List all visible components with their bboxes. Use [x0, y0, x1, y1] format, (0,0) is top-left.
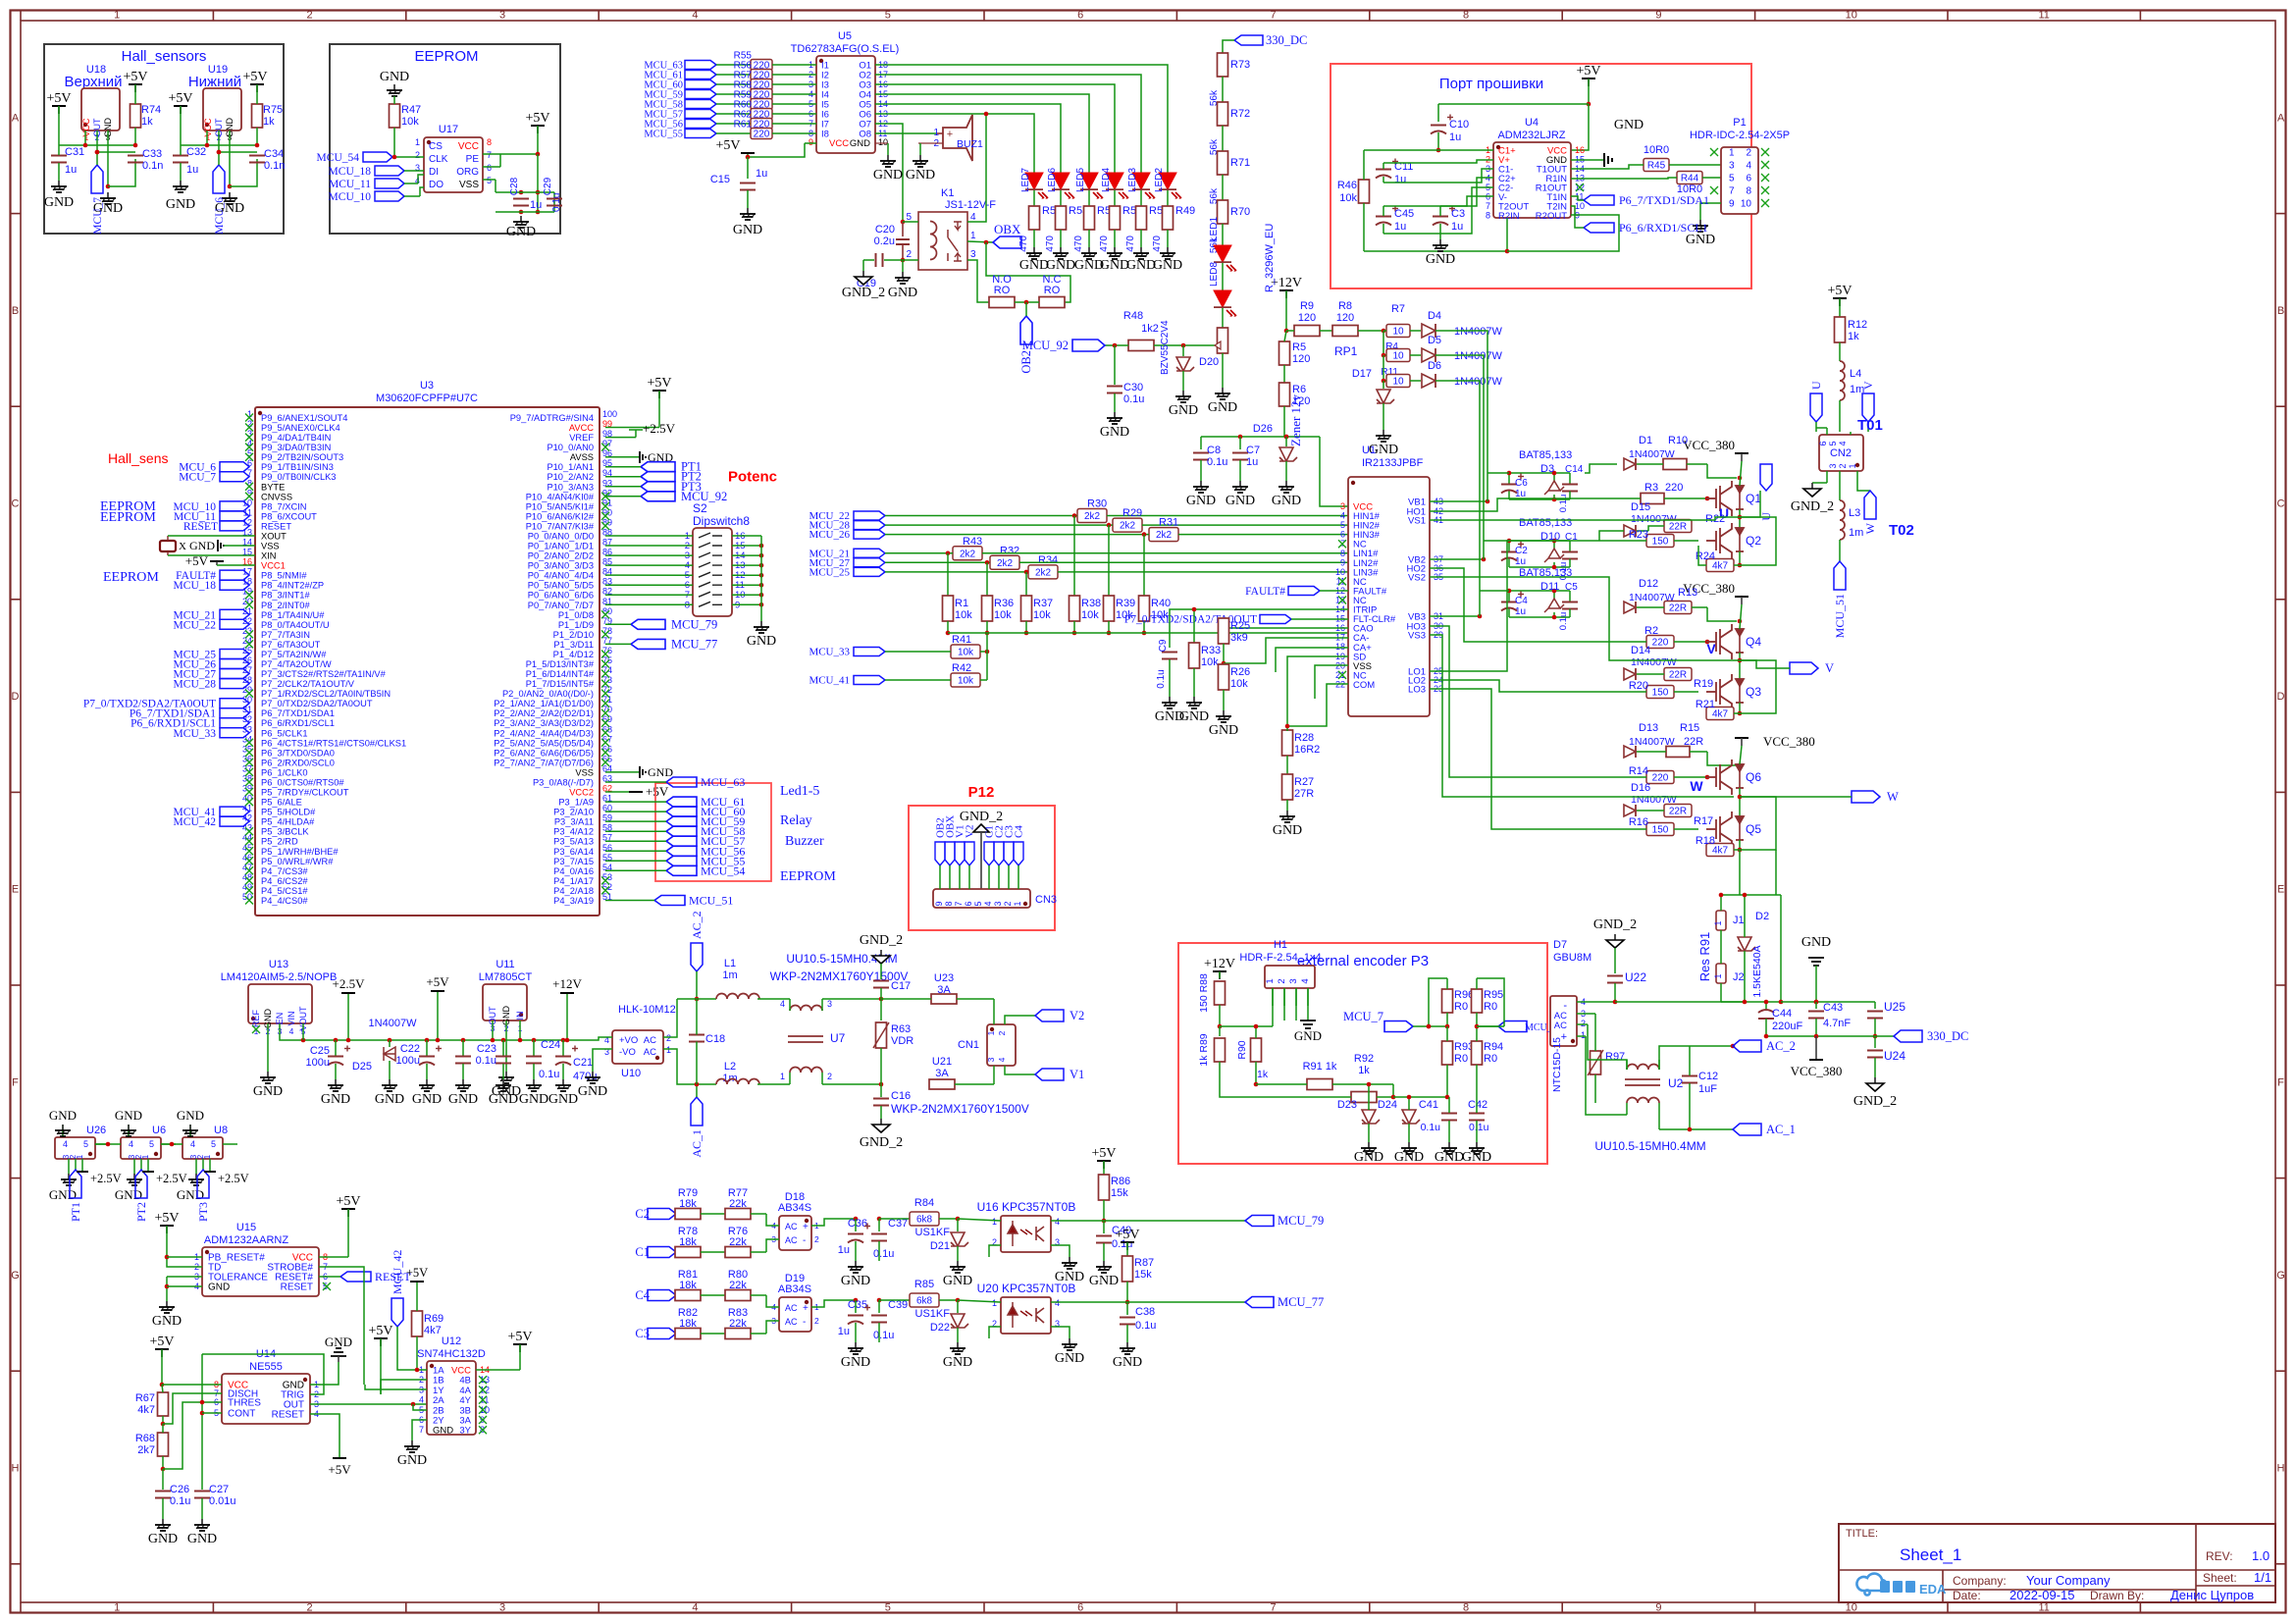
wire TVS top — [1720, 895, 1722, 911]
power +2.5V — [147, 1159, 149, 1172]
svg-text:1N4007W: 1N4007W — [1631, 656, 1677, 668]
resistor R37 10k — [1024, 570, 1029, 575]
svg-text:JS1-12V-F: JS1-12V-F — [945, 199, 996, 211]
wire C1- row — [1383, 177, 1384, 183]
svg-text:34: 34 — [242, 734, 252, 744]
ground — [335, 1079, 337, 1085]
svg-text:1: 1 — [114, 1602, 120, 1614]
svg-text:3: 3 — [827, 999, 832, 1009]
svg-text:9: 9 — [1655, 1602, 1661, 1614]
resistor R90 1k — [1251, 1038, 1262, 1062]
ground above U8 — [189, 1125, 191, 1137]
svg-text:5: 5 — [211, 1139, 216, 1149]
svg-text:P2_2/AN2_2/A2(/D2/D1): P2_2/AN2_2/A2(/D2/D1) — [494, 708, 594, 718]
net flag 330_DC top — [1234, 35, 1263, 45]
svg-text:GND: GND — [906, 168, 935, 183]
svg-text:AC: AC — [785, 1235, 798, 1245]
net flag PT2 — [641, 472, 675, 482]
svg-text:AC_1: AC_1 — [690, 1129, 704, 1158]
svg-text:1k R89: 1k R89 — [1198, 1033, 1210, 1066]
svg-text:VS3: VS3 — [1408, 631, 1426, 642]
resistor R96 R0 — [1442, 989, 1453, 1013]
svg-text:1.0: 1.0 — [2252, 1548, 2270, 1563]
svg-text:10: 10 — [878, 137, 888, 147]
ground — [267, 1072, 269, 1077]
svg-text:GND_2: GND_2 — [860, 1135, 903, 1150]
ground — [1033, 247, 1035, 253]
svg-text:D11: D11 — [1540, 581, 1559, 593]
svg-text:0.1u: 0.1u — [1469, 1122, 1489, 1133]
svg-text:P7_6/TA3OUT: P7_6/TA3OUT — [261, 640, 321, 650]
wire ITRIP — [1170, 609, 1348, 648]
net flag MCU_61 — [666, 797, 697, 807]
svg-text:AC_2: AC_2 — [1766, 1039, 1796, 1053]
svg-text:C35: C35 — [848, 1299, 867, 1311]
svg-text:10: 10 — [1741, 199, 1752, 210]
svg-text:6k8: 6k8 — [916, 1296, 933, 1307]
svg-text:Q4: Q4 — [1746, 635, 1761, 649]
svg-text:P1_1/D9: P1_1/D9 — [558, 620, 594, 630]
wire buzzer pin2 to ground — [918, 142, 943, 144]
svg-text:J1: J1 — [1733, 915, 1745, 926]
svg-text:GND: GND — [177, 1108, 204, 1123]
net flag P7_0/TXD2/SDA2/TA0OUT — [220, 699, 249, 708]
svg-text:BZV55C2V4: BZV55C2V4 — [1160, 320, 1171, 375]
net flag MCU_26 — [220, 659, 249, 669]
net flag MCU_25 — [854, 567, 885, 576]
wire bootstrap D6 to cluster3 — [1450, 381, 1480, 616]
svg-text:GND_2: GND_2 — [842, 286, 885, 300]
wire AC bottom — [663, 1049, 716, 1084]
output wires O1..O8 — [885, 65, 1168, 167]
wire C1+ row — [1363, 150, 1365, 180]
resistor R17 22R — [1664, 805, 1692, 817]
svg-text:R20: R20 — [1629, 680, 1648, 692]
svg-text:220: 220 — [1652, 638, 1669, 649]
svg-text:EEPROM: EEPROM — [100, 510, 156, 525]
svg-text:CLK: CLK — [429, 154, 448, 165]
svg-text:PT2: PT2 — [134, 1202, 148, 1222]
svg-text:C9: C9 — [1158, 639, 1169, 652]
svg-text:GND: GND — [321, 1092, 350, 1107]
net flag MCU_79 — [1245, 1216, 1274, 1227]
svg-text:220: 220 — [1652, 773, 1669, 784]
ground — [855, 1261, 857, 1267]
svg-text:75: 75 — [602, 655, 612, 665]
svg-text:3: 3 — [986, 1057, 996, 1062]
svg-text:7: 7 — [954, 901, 964, 906]
svg-text:C28: C28 — [509, 177, 520, 195]
diode D25 1N4007W — [388, 1038, 392, 1043]
svg-text:4: 4 — [129, 1139, 133, 1149]
svg-text:U12: U12 — [442, 1335, 461, 1347]
svg-text:MCU_63: MCU_63 — [701, 775, 745, 789]
svg-text:D13: D13 — [1639, 722, 1658, 734]
net flag MCU_25 — [220, 650, 249, 659]
svg-text:RESET: RESET — [183, 521, 218, 533]
svg-text:P3_1/A9: P3_1/A9 — [558, 798, 594, 808]
capacitor C11 1u — [1376, 169, 1391, 171]
svg-text:GND: GND — [648, 765, 673, 779]
power +5V — [1588, 79, 1590, 86]
ground — [1285, 481, 1287, 487]
power +5V — [747, 152, 749, 154]
svg-text:220uF: 220uF — [1772, 1021, 1802, 1032]
svg-text:GND_2: GND_2 — [1593, 917, 1637, 932]
wire V node — [1739, 653, 1741, 679]
svg-text:67: 67 — [602, 734, 612, 744]
capacitor C18 — [689, 1034, 704, 1036]
svg-text:P5_6/ALE: P5_6/ALE — [261, 798, 302, 808]
svg-text:0.1u: 0.1u — [1558, 612, 1569, 631]
svg-text:2k2: 2k2 — [1035, 568, 1052, 579]
net flag MCU_6 — [1498, 1021, 1527, 1032]
svg-text:C1: C1 — [635, 1245, 650, 1259]
net flag C4 — [648, 1290, 676, 1301]
svg-text:D2: D2 — [1755, 911, 1769, 922]
resistor R46 10k — [1359, 180, 1370, 203]
power +5V — [134, 84, 136, 92]
svg-text:PT1: PT1 — [69, 1202, 82, 1222]
svg-text:U13: U13 — [269, 959, 288, 970]
LED LED6 — [1060, 167, 1062, 175]
net flag FAULT# — [220, 570, 249, 580]
net flag OB2 vertical — [1020, 316, 1032, 344]
svg-text:D1: D1 — [1639, 435, 1652, 446]
wire bridge out+ — [811, 1300, 856, 1307]
wire R95 top loop — [1477, 978, 1504, 1026]
net flag MCU_63 — [666, 777, 697, 787]
svg-text:U25: U25 — [1884, 1000, 1905, 1014]
svg-text:R48: R48 — [1123, 310, 1143, 322]
svg-text:1u: 1u — [1515, 606, 1526, 617]
svg-text:R3: R3 — [1644, 482, 1658, 494]
NC crosses right — [479, 1376, 487, 1384]
resistor R56 220 — [716, 74, 752, 76]
svg-text:1m: 1m — [722, 1073, 737, 1084]
svg-text:2: 2 — [906, 249, 912, 260]
svg-text:Q6: Q6 — [1746, 770, 1761, 784]
svg-text:150: 150 — [1652, 688, 1669, 699]
net flag 330_DC right — [1894, 1030, 1922, 1042]
ground — [957, 1342, 959, 1348]
svg-text:P3_5/A13: P3_5/A13 — [553, 837, 594, 847]
svg-text:D20: D20 — [1199, 356, 1219, 368]
wire cluster bottom bus — [1508, 492, 1510, 500]
svg-text:P7_7/TA3IN: P7_7/TA3IN — [261, 630, 310, 640]
svg-text:MCU_33: MCU_33 — [174, 728, 217, 740]
svg-text:68: 68 — [602, 724, 612, 734]
wire +5V to VCC — [1587, 102, 1592, 107]
wires below — [133, 1159, 135, 1174]
svg-text:9: 9 — [809, 137, 813, 147]
svg-text:Sheet:: Sheet: — [2203, 1571, 2237, 1585]
svg-text:U5: U5 — [838, 30, 852, 42]
svg-text:2: 2 — [814, 1234, 819, 1244]
svg-text:0.01u: 0.01u — [209, 1495, 236, 1507]
svg-text:F: F — [2277, 1076, 2284, 1088]
power +5V — [437, 991, 439, 1040]
ground — [1448, 1142, 1450, 1148]
svg-text:49: 49 — [242, 882, 252, 892]
ground — [1193, 697, 1195, 703]
net flag C4 vertical — [1014, 842, 1023, 865]
svg-text:+5V: +5V — [328, 1462, 351, 1477]
svg-text:C3: C3 — [1451, 208, 1465, 220]
svg-text:GND: GND — [1169, 403, 1198, 418]
net flag MCU_7 — [91, 165, 103, 193]
svg-text:P9_0/TB0IN/CLK3: P9_0/TB0IN/CLK3 — [261, 472, 336, 482]
net flag MCU_77 — [631, 639, 665, 649]
svg-text:-: - — [803, 1317, 806, 1328]
svg-text:PT3: PT3 — [196, 1202, 210, 1222]
svg-text:D: D — [2277, 691, 2285, 703]
svg-text:4: 4 — [190, 1139, 195, 1149]
ground — [533, 1079, 535, 1085]
svg-text:6k8: 6k8 — [916, 1215, 933, 1226]
resistor R13 22R — [1664, 602, 1692, 614]
svg-text:1uF: 1uF — [1698, 1083, 1717, 1095]
net flag C2 vertical — [994, 842, 1004, 865]
ground — [1103, 1261, 1105, 1267]
svg-text:P9_2/TB2IN/SOUT3: P9_2/TB2IN/SOUT3 — [261, 452, 343, 462]
resistor R69 4k7 — [412, 1311, 423, 1336]
svg-text:27: 27 — [242, 665, 252, 675]
svg-text:A: A — [12, 112, 20, 124]
net flag MCU_10 — [220, 501, 249, 511]
svg-text:48: 48 — [242, 872, 252, 882]
net flag MCU_10 — [375, 191, 404, 201]
svg-text:BAT85,133: BAT85,133 — [1519, 517, 1572, 529]
svg-text:CS: CS — [429, 141, 443, 152]
svg-text:2: 2 — [307, 1602, 313, 1614]
power +5V mid — [380, 1338, 382, 1346]
capacitor C8 0.1u — [1200, 437, 1202, 449]
svg-text:B: B — [12, 305, 19, 317]
svg-text:5: 5 — [1340, 520, 1345, 530]
LED LED2 — [1167, 167, 1169, 175]
wire cluster top bus — [1509, 590, 1570, 592]
svg-text:66: 66 — [602, 744, 612, 754]
svg-text:MCU_79: MCU_79 — [1278, 1214, 1324, 1228]
svg-text:RO: RO — [1044, 285, 1061, 296]
wire CONT/THRES vertical — [201, 1354, 203, 1490]
svg-text:P6_6/RXD1/SCL1: P6_6/RXD1/SCL1 — [1619, 221, 1708, 235]
svg-text:3: 3 — [970, 249, 976, 260]
svg-text:P0_3/AN0_3/D3: P0_3/AN0_3/D3 — [528, 561, 594, 571]
net flag MCU_18 — [375, 166, 404, 176]
net flag PT1 — [641, 462, 675, 472]
wire opto pin3 gnd — [1051, 1327, 1070, 1338]
wire dipswitch row 1 — [605, 535, 693, 537]
svg-text:P4_6/CS2#: P4_6/CS2# — [261, 876, 308, 886]
svg-text:47: 47 — [242, 863, 252, 872]
net flag MCU_54 — [666, 865, 697, 875]
svg-text:+5V: +5V — [336, 1194, 360, 1209]
svg-text:1/1: 1/1 — [2254, 1570, 2271, 1585]
wire VS2 to V node — [1430, 577, 1742, 660]
svg-text:MCU_77: MCU_77 — [1278, 1295, 1324, 1309]
wire U2 right side — [1658, 1060, 1660, 1070]
svg-text:VCC_380: VCC_380 — [1683, 438, 1735, 452]
svg-text:32: 32 — [242, 714, 252, 724]
ground — [1114, 412, 1116, 418]
wire MCU_42/R69 to 1A — [397, 1365, 427, 1370]
capacitor C1 0.1u — [1562, 551, 1578, 553]
svg-text:97: 97 — [602, 439, 612, 448]
svg-text:P6_6/RXD1/SCL1: P6_6/RXD1/SCL1 — [261, 718, 335, 728]
svg-text:AC: AC — [644, 1047, 656, 1058]
crystal X1 — [160, 541, 176, 551]
wire cluster top to D1 — [1585, 464, 1617, 473]
svg-text:6: 6 — [1077, 10, 1083, 22]
wire — [392, 156, 424, 158]
power +2.5V — [81, 1159, 83, 1172]
wire +5V to pins 1,2 — [167, 1226, 202, 1267]
svg-text:0.1u: 0.1u — [539, 1069, 559, 1080]
inductor L4 1m — [1840, 361, 1845, 400]
svg-text:R67: R67 — [135, 1392, 155, 1404]
svg-text:P6_3/TXD0/SDA0: P6_3/TXD0/SDA0 — [261, 748, 335, 758]
svg-text:7: 7 — [419, 1425, 424, 1435]
svg-text:1u: 1u — [65, 164, 77, 176]
net flag MCU_11 — [220, 511, 249, 521]
svg-text:D16: D16 — [1631, 782, 1650, 794]
svg-text:C29: C29 — [543, 177, 553, 195]
svg-text:P10_7/AN7/KI3#: P10_7/AN7/KI3# — [526, 521, 595, 531]
svg-text:5: 5 — [885, 10, 891, 22]
svg-text:C8: C8 — [1207, 445, 1221, 456]
ground above U6 — [128, 1125, 130, 1137]
svg-text:U2: U2 — [1668, 1076, 1684, 1090]
svg-text:330_DC: 330_DC — [1927, 1029, 1968, 1043]
net flag AC_2 vertical — [691, 943, 703, 971]
svg-text:R69: R69 — [424, 1313, 444, 1325]
svg-text:MCU_79: MCU_79 — [671, 617, 717, 631]
svg-text:2: 2 — [827, 1072, 832, 1081]
ground — [1167, 247, 1169, 253]
svg-text:GND: GND — [1019, 258, 1049, 273]
wire RESET to +5V — [310, 1414, 339, 1458]
resistor R36 10k — [985, 560, 990, 565]
resistor R26 10k — [1219, 664, 1229, 690]
svg-text:GND: GND — [115, 1108, 142, 1123]
wire 10k common bus — [948, 632, 1348, 634]
capacitor C45 1u — [1376, 216, 1391, 218]
svg-text:C17: C17 — [891, 980, 911, 992]
svg-text:GND: GND — [1089, 1274, 1119, 1288]
external encoder P3 group box — [1178, 943, 1547, 1164]
svg-text:U: U — [1719, 505, 1729, 521]
svg-text:U15: U15 — [236, 1222, 256, 1233]
svg-text:10: 10 — [1575, 201, 1585, 211]
resistor R50 470 — [1140, 190, 1142, 206]
LED LED7 — [1033, 167, 1035, 175]
svg-text:P7_3/CTS2#/RTS2#/TA1IN/V#: P7_3/CTS2#/RTS2#/TA1IN/V# — [261, 669, 387, 679]
net flag C3 vertical — [1004, 842, 1014, 865]
resistor R89 1k — [1219, 1026, 1221, 1036]
svg-text:GND: GND — [1394, 1150, 1424, 1165]
svg-text:GND: GND — [1186, 494, 1216, 508]
capacitor C2 1u — [1501, 551, 1517, 553]
svg-text:+2.5V: +2.5V — [333, 976, 366, 991]
wire 12v bus — [1284, 435, 1289, 440]
svg-text:P0_6/AN0_6/D6: P0_6/AN0_6/D6 — [528, 591, 594, 601]
svg-text:10: 10 — [1392, 351, 1404, 362]
svg-text:50: 50 — [242, 892, 252, 902]
svg-text:2: 2 — [814, 1316, 819, 1326]
svg-text:C36: C36 — [848, 1218, 867, 1230]
svg-text:40: 40 — [242, 794, 252, 804]
svg-text:P9_4/DA1/TB4IN: P9_4/DA1/TB4IN — [261, 433, 331, 443]
svg-text:MCU_22: MCU_22 — [174, 619, 217, 631]
svg-text:P5_2/RD: P5_2/RD — [261, 837, 298, 847]
net flag MCU_77 — [1245, 1297, 1274, 1308]
svg-text:R7: R7 — [1391, 303, 1405, 315]
wire relay pin1 to OBX — [967, 241, 993, 242]
svg-text:NTC15D-15: NTC15D-15 — [1551, 1037, 1563, 1092]
ground — [1088, 247, 1090, 253]
resistor R59 220 — [716, 103, 752, 105]
net flag MCU_18 — [220, 580, 249, 590]
LED LED1 — [1222, 224, 1224, 247]
svg-text:P3_0/A8(/-/D7): P3_0/A8(/-/D7) — [533, 778, 594, 788]
svg-text:GND_2: GND_2 — [860, 933, 903, 948]
svg-text:3: 3 — [1729, 161, 1735, 172]
net flag MCU_92 — [1072, 340, 1105, 351]
svg-text:GND: GND — [380, 70, 409, 84]
wire OBX branch down to N.C — [986, 242, 1070, 302]
svg-text:D23: D23 — [1337, 1099, 1357, 1111]
svg-text:P9_6/ANEX1/SOUT4: P9_6/ANEX1/SOUT4 — [261, 413, 347, 423]
svg-text:8: 8 — [1463, 1602, 1469, 1614]
svg-text:+5V: +5V — [1115, 1228, 1139, 1242]
wire right pin — [161, 1143, 176, 1145]
svg-text:0.1u: 0.1u — [1421, 1122, 1441, 1133]
svg-text:D4: D4 — [1428, 310, 1441, 322]
power +5V — [166, 1226, 168, 1233]
svg-text:23: 23 — [242, 626, 252, 636]
IGBT transistor Q3 — [1706, 674, 1744, 709]
svg-text:1: 1 — [986, 1030, 996, 1035]
svg-text:MCU_92: MCU_92 — [1022, 339, 1069, 352]
resistor R67 4k7 — [158, 1392, 169, 1416]
svg-text:X: X — [179, 541, 186, 552]
svg-text:B: B — [2277, 305, 2284, 317]
svg-text:R19: R19 — [1694, 678, 1713, 690]
svg-text:22R: 22R — [1669, 807, 1687, 817]
svg-text:10: 10 — [1392, 327, 1404, 338]
svg-text:2k2: 2k2 — [1156, 530, 1173, 541]
svg-text:R45: R45 — [1647, 161, 1666, 172]
svg-text:MCU_6: MCU_6 — [214, 197, 226, 235]
svg-text:+5V: +5V — [46, 91, 71, 106]
svg-text:9: 9 — [1655, 10, 1661, 22]
svg-text:9: 9 — [1729, 199, 1735, 210]
resistor R5 120 — [1279, 341, 1290, 365]
svg-text:P2_6/AN2_6/A6(/D6/D5): P2_6/AN2_6/A6(/D6/D5) — [494, 748, 594, 758]
svg-text:4: 4 — [419, 1395, 424, 1405]
svg-text:GND: GND — [433, 1426, 453, 1437]
svg-text:E: E — [2277, 884, 2284, 896]
svg-text:RESET: RESET — [272, 1410, 304, 1421]
capacitor unnamed — [461, 1038, 466, 1043]
svg-text:10k: 10k — [401, 116, 419, 128]
wires below — [68, 1159, 70, 1174]
svg-text:120: 120 — [1298, 312, 1316, 324]
svg-text:70: 70 — [602, 705, 612, 714]
svg-text:XOUT: XOUT — [261, 532, 287, 542]
